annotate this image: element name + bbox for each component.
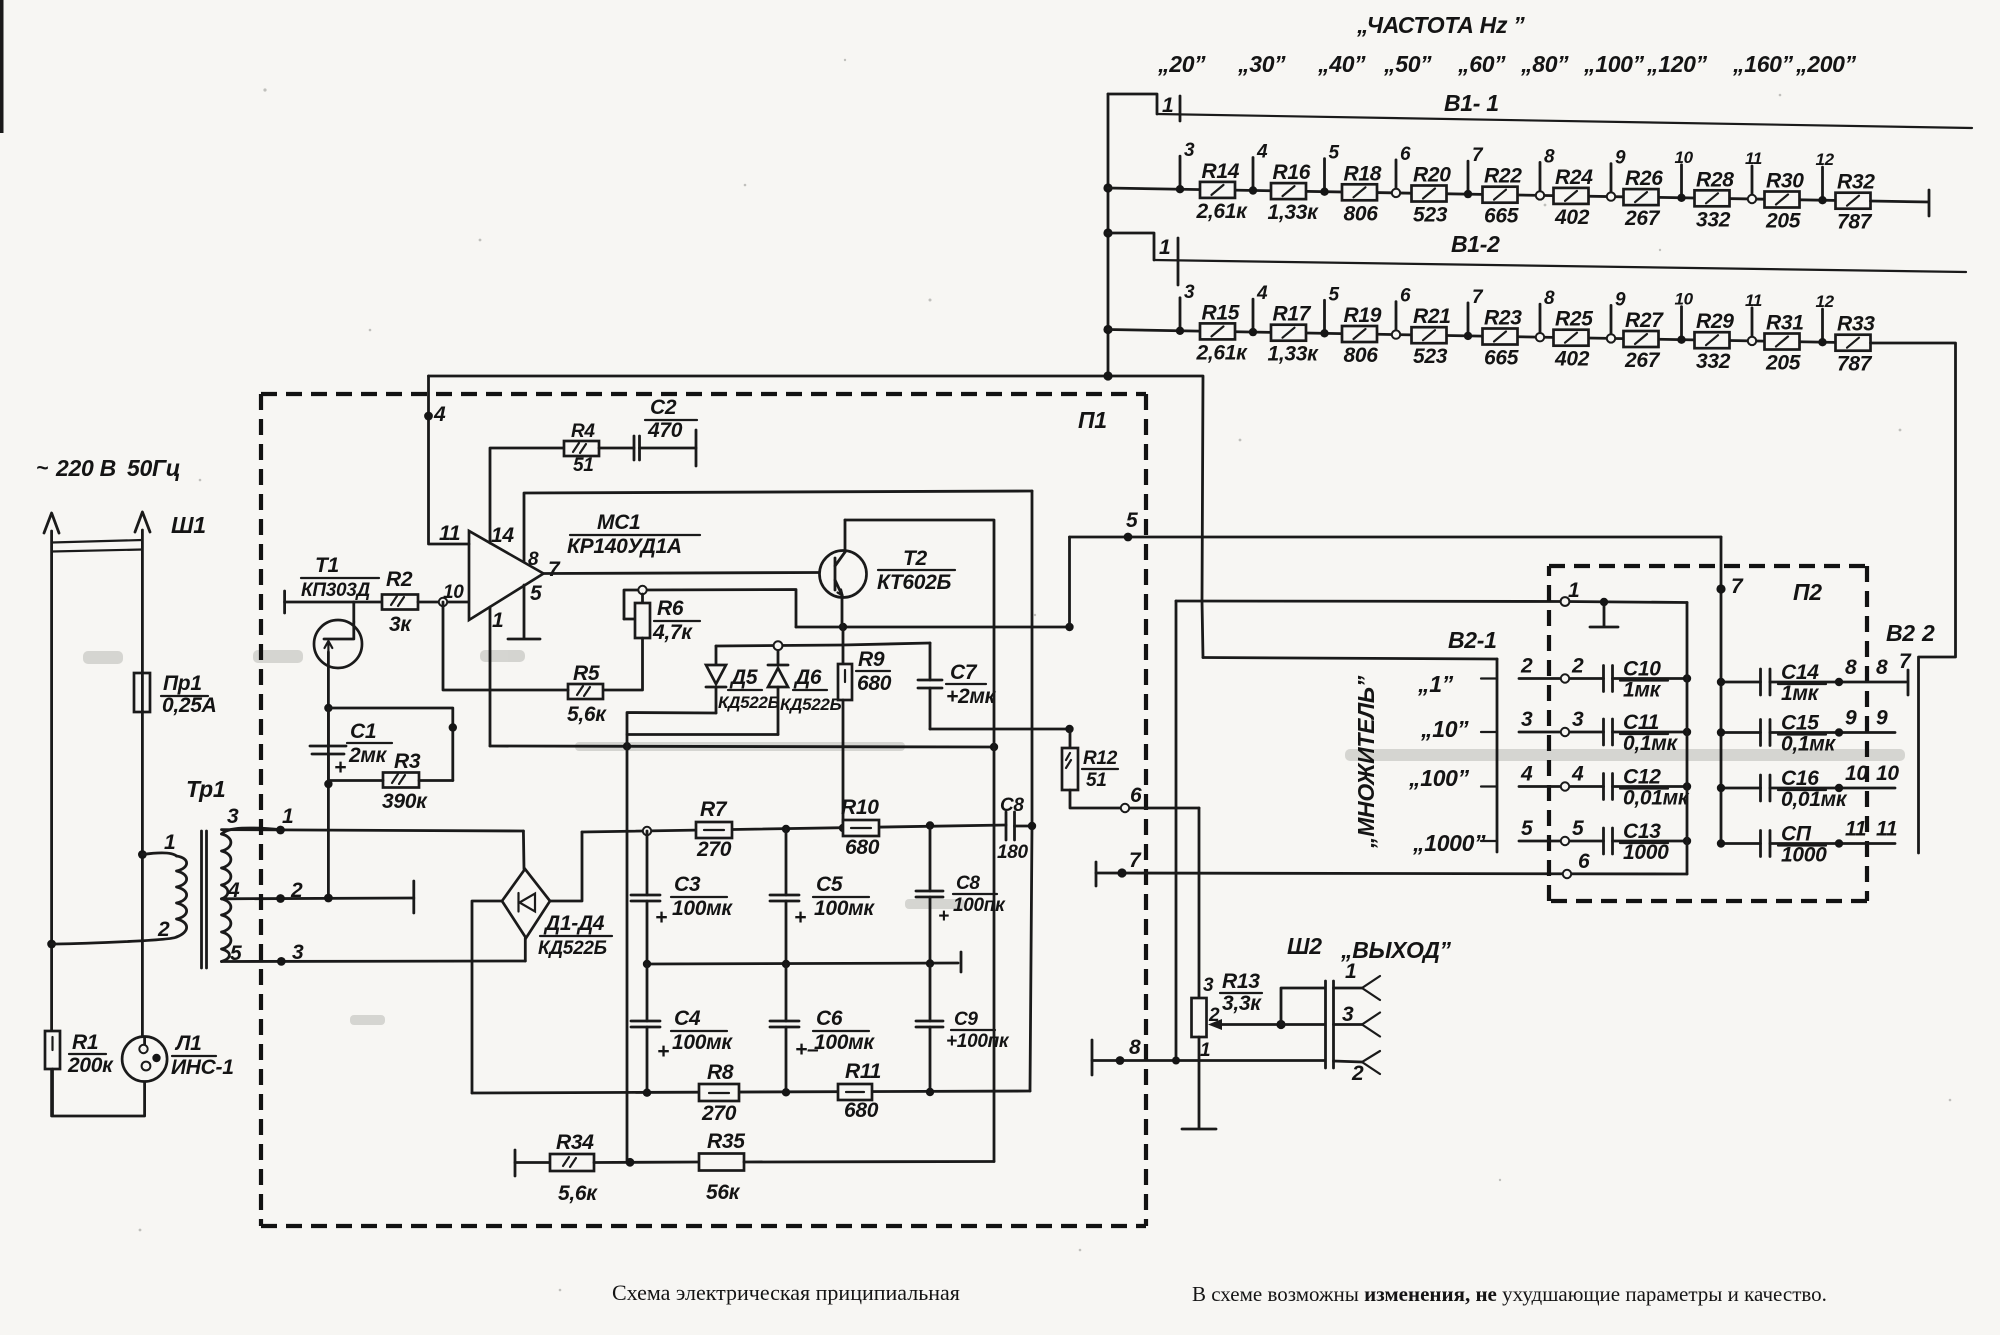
svg-text:3: 3: [227, 805, 239, 828]
svg-text:56к: 56к: [706, 1181, 741, 1204]
capacitor С14: [1717, 656, 1906, 705]
resistor R1: [45, 1031, 114, 1077]
transformer Tr1 label: [186, 776, 225, 802]
svg-text:7: 7: [548, 558, 561, 581]
wire R2 to opamp pin10: [418, 598, 469, 606]
label B2-1: [1448, 627, 1497, 653]
svg-text:В2: В2: [1886, 620, 1915, 646]
svg-text:R35: R35: [707, 1130, 745, 1153]
capacitor C9: [916, 964, 1010, 1092]
resistor R31: [1765, 312, 1804, 375]
wire secondary pin5 to node3: [222, 941, 526, 966]
svg-text:3к: 3к: [389, 613, 412, 636]
wire mains L with arrow: [44, 513, 59, 1116]
wire R34 to R35: [594, 1158, 699, 1167]
svg-text:205: 205: [1765, 210, 1801, 233]
svg-text:+: +: [938, 906, 949, 927]
wire B1-2 switch arm: [1154, 260, 1966, 272]
resistor R27: [1624, 309, 1665, 372]
node P2 pin7: [1716, 537, 1744, 844]
wire B1-2 common feed: [1108, 233, 1154, 260]
wire secondary pin3 to node1: [222, 805, 524, 834]
svg-text:402: 402: [1554, 206, 1590, 229]
svg-text:4: 4: [1571, 763, 1584, 786]
node B1-2 pin 9: [1607, 289, 1626, 342]
svg-text:+–: +–: [795, 1038, 819, 1061]
diode D6: [768, 646, 842, 735]
svg-text:С12: С12: [1623, 766, 1661, 789]
svg-text:„ЧАСТОТА Hz ”: „ЧАСТОТА Hz ”: [1356, 12, 1525, 38]
node B1-2 pin 8: [1536, 288, 1555, 341]
resistor R34: [515, 1131, 598, 1205]
svg-text:4: 4: [1520, 763, 1533, 786]
svg-text:7: 7: [1472, 287, 1484, 308]
svg-text:4,7к: 4,7к: [652, 621, 693, 644]
svg-text:R32: R32: [1837, 171, 1875, 194]
wire B1-1 switch arm: [1157, 114, 1972, 128]
svg-text:523: 523: [1413, 345, 1448, 368]
svg-text:С6: С6: [816, 1007, 843, 1030]
wire B1-1 common feed: [1108, 94, 1157, 114]
label ~220V 50Hz: [36, 455, 180, 481]
svg-text:11: 11: [1745, 149, 1762, 168]
node C1 top: [324, 704, 332, 712]
svg-text:8: 8: [1876, 656, 1888, 679]
wire opamp out pin7 to T2 base: [544, 573, 821, 574]
resistor R32: [1836, 171, 1876, 234]
svg-text:1мк: 1мк: [1623, 679, 1662, 702]
label CHASTOTA Hz: [1356, 12, 1525, 38]
node C4 bottom: [643, 1089, 651, 1097]
svg-text:9: 9: [1615, 148, 1626, 169]
svg-text:В1- 1: В1- 1: [1444, 90, 1499, 116]
svg-text:9: 9: [1845, 707, 1857, 730]
capacitor C5: [770, 829, 875, 964]
svg-text:R26: R26: [1625, 167, 1663, 190]
svg-text:R18: R18: [1344, 162, 1382, 185]
capacitor C8b: [916, 826, 1006, 965]
svg-text:С15: С15: [1781, 712, 1819, 735]
svg-text:11: 11: [1876, 818, 1897, 841]
node B1-1 pin 9: [1607, 148, 1626, 201]
svg-text:+2мк: +2мк: [946, 685, 997, 708]
wire B1 feed down left: [1108, 376, 1203, 601]
svg-text:~: ~: [36, 457, 48, 480]
wire R12 bottom to node6: [1070, 784, 1199, 812]
resistor R6 vertical: [635, 597, 700, 644]
svg-text:100мк: 100мк: [814, 897, 875, 920]
wire node8: [1092, 1036, 1325, 1065]
svg-text:220 В: 220 В: [55, 455, 116, 481]
svg-text:3: 3: [1203, 975, 1214, 996]
node B1-1 pin 1: [1162, 94, 1180, 121]
svg-text:Л1: Л1: [174, 1032, 202, 1055]
svg-text:787: 787: [1837, 211, 1873, 234]
wire B1-2 resistor row: [1108, 330, 1869, 344]
resistor R9 vertical: [838, 627, 892, 700]
wire R33 output to B2 bus: [1871, 343, 1956, 853]
node B1-1 pin 4: [1249, 142, 1268, 195]
node P2 pin6: [1563, 850, 1590, 878]
svg-text:5,6к: 5,6к: [558, 1182, 598, 1205]
svg-text:50Гц: 50Гц: [127, 455, 180, 481]
label frequency scale: [1157, 51, 1857, 77]
svg-text:2,61к: 2,61к: [1196, 200, 1249, 223]
wire T1 source down: [324, 667, 333, 902]
wire R1 bottom: [53, 1069, 145, 1116]
wire R6 bottom to R5: [603, 638, 643, 690]
svg-text:С4: С4: [674, 1007, 701, 1030]
svg-text:В схеме возможны изменения, не: В схеме возможны изменения, не ухудшающи…: [1192, 1282, 1827, 1306]
svg-text:+: +: [334, 756, 346, 779]
resistor R20: [1412, 164, 1452, 227]
svg-text:1,33к: 1,33к: [1268, 343, 1320, 366]
svg-text:4: 4: [1256, 142, 1268, 163]
svg-text:+: +: [655, 906, 667, 929]
svg-text:Ш1: Ш1: [171, 512, 206, 538]
wire pin14 to R4: [490, 448, 564, 543]
svg-text:8: 8: [1544, 288, 1555, 309]
svg-text:3: 3: [1184, 282, 1195, 303]
svg-text:СП: СП: [1781, 823, 1812, 846]
capacitor С10: [1519, 655, 1691, 702]
svg-text:КД522Б: КД522Б: [718, 693, 780, 712]
svg-text:9: 9: [1876, 707, 1888, 730]
wire node5 horizontal: [1070, 509, 1722, 541]
resistor R13 potentiometer: [1192, 970, 1263, 1061]
node B1-2 pin 11: [1745, 291, 1762, 345]
wire R13 wiper: [1208, 1019, 1286, 1030]
svg-text:„МНОЖИТЕЛЬ”: „МНОЖИТЕЛЬ”: [1353, 675, 1379, 849]
node B1-2 pin 10: [1675, 290, 1694, 344]
svg-text:3: 3: [1521, 708, 1533, 731]
wire secondary pin4 to node2: [222, 879, 414, 903]
svg-text:КТ602Б: КТ602Б: [877, 571, 952, 594]
capacitor С15: [1717, 707, 1895, 756]
svg-text:6: 6: [1130, 784, 1142, 807]
svg-text:„200”: „200”: [1795, 51, 1857, 77]
svg-text:ИНС-1: ИНС-1: [171, 1056, 234, 1079]
svg-text:12: 12: [1816, 292, 1835, 311]
wire T1 gate to R2: [285, 602, 382, 622]
svg-text:С8: С8: [1000, 795, 1024, 816]
svg-text:14: 14: [491, 524, 514, 547]
svg-text:5: 5: [1521, 817, 1533, 840]
wire mains N with arrow: [135, 512, 150, 672]
node B1-1 pin 11: [1745, 149, 1762, 203]
resistor R25: [1554, 308, 1594, 371]
svg-text:С2: С2: [650, 396, 677, 419]
svg-text:Д6: Д6: [793, 666, 822, 689]
svg-text:6: 6: [1400, 144, 1411, 165]
diode bridge D1-D4: [502, 869, 612, 959]
svg-text:1: 1: [1200, 1040, 1210, 1061]
wire emitter rail y627: [796, 623, 1074, 631]
svg-text:„10”: „10”: [1420, 716, 1469, 742]
wire node6 down to R13: [1198, 808, 1201, 998]
resistor R21: [1412, 305, 1451, 368]
node B1-1 pin 8: [1536, 146, 1555, 199]
svg-text:+: +: [794, 906, 806, 929]
svg-text:„160”: „160”: [1732, 51, 1794, 77]
node B1-2 pin 4: [1249, 283, 1268, 336]
node B1-1 pin 12: [1816, 150, 1835, 204]
terminal bar node2: [412, 881, 415, 913]
resistor R8: [699, 1061, 739, 1125]
svg-text:0,01мк: 0,01мк: [1623, 787, 1690, 810]
svg-text:С11: С11: [1623, 711, 1659, 734]
label B2 2: [1886, 620, 1935, 646]
svg-text:5,6к: 5,6к: [567, 703, 607, 726]
svg-text:0,1мк: 0,1мк: [1623, 732, 1679, 755]
svg-text:1,33к: 1,33к: [1268, 201, 1320, 224]
connector Sh1 boundary lines: [52, 540, 143, 552]
terminal bar B2-2 wiper: [1899, 650, 1912, 695]
svg-text:С16: С16: [1781, 767, 1819, 790]
node C6 bottom: [782, 1088, 790, 1096]
svg-text:7: 7: [1472, 145, 1484, 166]
op-amp labels: [439, 522, 561, 632]
ground B2-1 node1: [1590, 598, 1618, 627]
connector Sh2 pin2: [1334, 1051, 1381, 1085]
svg-text:2: 2: [157, 918, 170, 941]
resistor R29: [1695, 310, 1735, 373]
node C3 column top: [643, 827, 651, 835]
svg-text:„ВЫХОД”: „ВЫХОД”: [1340, 937, 1452, 963]
wire pin8 to comp line: [524, 491, 1032, 562]
node B1-1 pin 3: [1176, 140, 1195, 193]
wire R3 leads: [328, 779, 452, 782]
transformer primary winding: [52, 831, 187, 944]
svg-text:R27: R27: [1625, 309, 1664, 332]
resistor R16: [1268, 161, 1320, 224]
svg-text:7: 7: [1129, 849, 1142, 872]
svg-text:1: 1: [1159, 236, 1170, 259]
svg-text:10: 10: [1876, 762, 1899, 785]
resistor R33: [1836, 313, 1876, 376]
wire C7 bottom to emitter vert: [930, 725, 1074, 733]
transistor T1 gate terminal bar: [283, 591, 286, 613]
svg-text:665: 665: [1484, 205, 1519, 228]
svg-text:R23: R23: [1484, 307, 1522, 330]
resistor R19: [1342, 304, 1382, 367]
svg-text:„100”: „100”: [1408, 765, 1470, 791]
svg-text:6: 6: [1578, 850, 1590, 873]
svg-text:R8: R8: [707, 1061, 734, 1084]
svg-text:R29: R29: [1696, 310, 1734, 333]
svg-text:„120”: „120”: [1646, 51, 1708, 77]
svg-text:470: 470: [647, 419, 683, 442]
capacitor С16: [1717, 762, 1900, 811]
transistor T1 body: [314, 620, 362, 668]
svg-text:2: 2: [1571, 655, 1584, 678]
svg-text:R11: R11: [845, 1060, 881, 1083]
svg-text:„60”: „60”: [1457, 51, 1506, 77]
capacitor C2: [599, 396, 697, 466]
terminal bar node8: [1091, 1040, 1094, 1075]
terminal bar B1-1 output: [1871, 190, 1930, 216]
svg-text:100мк: 100мк: [814, 1031, 875, 1054]
capacitor C3: [631, 831, 733, 964]
svg-text:R33: R33: [1837, 313, 1875, 336]
transistor T2: [820, 520, 867, 627]
svg-text:100мк: 100мк: [672, 897, 733, 920]
svg-text:7: 7: [1731, 575, 1744, 598]
svg-text:11: 11: [1845, 818, 1866, 841]
svg-text:5: 5: [1329, 143, 1340, 164]
node B1-2 pin 6: [1392, 286, 1411, 339]
svg-text:1: 1: [1345, 960, 1356, 983]
transformer secondary winding 4-5: [222, 879, 243, 965]
neon lamp L1: [122, 1032, 234, 1082]
svg-text:R13: R13: [1222, 970, 1260, 993]
svg-text:КД522Б: КД522Б: [780, 695, 842, 714]
svg-text:10: 10: [1675, 148, 1694, 167]
svg-text:Пр1: Пр1: [163, 672, 202, 695]
wire junction drop to node8: [1172, 601, 1180, 1065]
wire R35 to T2 net: [744, 1160, 994, 1163]
resistor R22: [1483, 165, 1523, 228]
svg-text:2: 2: [1921, 620, 1935, 646]
svg-text:3: 3: [1342, 1003, 1354, 1026]
node B1-1 pin 6: [1392, 144, 1411, 197]
svg-text:1: 1: [164, 831, 175, 854]
resistor R35: [699, 1130, 745, 1204]
svg-text:10: 10: [443, 582, 464, 603]
svg-text:С5: С5: [816, 873, 843, 896]
resistor R5: [567, 662, 607, 726]
svg-text:Схема электрическая приципиа: Схема электрическая приципиальная: [612, 1280, 960, 1305]
svg-text:+: +: [657, 1040, 669, 1063]
capacitor C6: [770, 964, 875, 1092]
connector Sh2 pin3: [1334, 1003, 1381, 1037]
svg-text:267: 267: [1624, 207, 1661, 230]
svg-text:1000: 1000: [1781, 844, 1827, 867]
label B2-1 positions: [1408, 671, 1486, 856]
wire node4 vertical and pin11: [424, 376, 469, 544]
svg-text:100мк: 100мк: [672, 1031, 733, 1054]
svg-text:R30: R30: [1766, 170, 1804, 193]
wire D6 bottom jog: [627, 733, 778, 736]
svg-text:R34: R34: [556, 1131, 594, 1154]
scan smudges: [83, 650, 1905, 1025]
svg-text:R17: R17: [1273, 303, 1312, 326]
hook wire R6 top: [624, 586, 796, 627]
wire B1 left bus: [1103, 94, 1112, 381]
svg-text:R6: R6: [657, 597, 684, 620]
svg-text:680: 680: [844, 1099, 879, 1122]
svg-text:270: 270: [696, 838, 732, 861]
svg-text:R31: R31: [1766, 312, 1804, 335]
resistor R14: [1196, 160, 1249, 223]
svg-text:МС1: МС1: [597, 511, 640, 534]
wire R5 left to pin10 node: [443, 602, 568, 690]
svg-text:12: 12: [1816, 150, 1835, 169]
svg-text:100пк: 100пк: [953, 895, 1006, 916]
svg-text:806: 806: [1344, 344, 1379, 367]
svg-text:4: 4: [433, 403, 446, 426]
svg-text:3: 3: [1572, 708, 1584, 731]
svg-text:КП303Д: КП303Д: [301, 580, 371, 601]
node B1-2 pin 12: [1816, 292, 1835, 346]
label Sh2 VYHOD: [1287, 933, 1452, 963]
node C8b column top: [926, 821, 934, 829]
svg-text:8: 8: [1129, 1036, 1141, 1059]
svg-text:С14: С14: [1781, 661, 1819, 684]
svg-text:R22: R22: [1484, 165, 1522, 188]
svg-text:665: 665: [1484, 347, 1519, 370]
svg-text:3: 3: [1184, 140, 1195, 161]
svg-text:R16: R16: [1273, 161, 1311, 184]
svg-text:8: 8: [528, 549, 539, 570]
svg-text:5: 5: [1126, 509, 1138, 532]
wire emitter to node5 riser: [1068, 537, 1071, 627]
op-amp U1 triangle: [469, 531, 544, 620]
node B1-1 pin 10: [1675, 148, 1694, 202]
svg-text:1мк: 1мк: [1781, 682, 1820, 705]
mid rail: [643, 952, 961, 972]
svg-text:R7: R7: [700, 798, 728, 821]
svg-text:„1”: „1”: [1417, 671, 1454, 697]
svg-text:787: 787: [1837, 353, 1873, 376]
dashed box P1: [261, 394, 1146, 1226]
svg-text:1: 1: [1568, 579, 1579, 602]
node loop tap: [449, 723, 457, 731]
svg-text:R28: R28: [1696, 168, 1734, 191]
svg-text:„30”: „30”: [1237, 51, 1286, 77]
svg-text:402: 402: [1554, 348, 1590, 371]
svg-text:390к: 390к: [382, 790, 428, 813]
resistor R7: [696, 798, 732, 861]
svg-text:С9: С9: [954, 1009, 978, 1030]
caption note: [1192, 1282, 1827, 1306]
svg-text:4: 4: [1256, 283, 1268, 304]
resistor R12: [1062, 729, 1118, 791]
wire D5 bottom jog: [627, 713, 716, 1163]
svg-text:267: 267: [1624, 349, 1661, 372]
svg-text:5: 5: [530, 582, 542, 605]
wire bridge bottom to node3 wire: [524, 938, 527, 961]
label MC1 KR140UD1A: [567, 511, 700, 558]
svg-text:180: 180: [997, 842, 1029, 863]
capacitor С13: [1519, 817, 1691, 864]
svg-text:В1-2: В1-2: [1451, 231, 1500, 257]
svg-text:П1: П1: [1078, 407, 1107, 433]
svg-text:1: 1: [492, 609, 503, 632]
svg-text:2: 2: [1351, 1062, 1364, 1085]
resistor R28: [1695, 168, 1735, 231]
wire C1 loop top: [328, 708, 452, 781]
capacitor C7: [918, 643, 997, 729]
svg-text:Т1: Т1: [315, 554, 339, 577]
wire wiper to pin3: [1281, 1023, 1325, 1026]
capacitor C4: [631, 964, 733, 1092]
svg-text:11: 11: [1745, 291, 1762, 310]
labels T2 KT602B: [877, 547, 955, 594]
svg-text:„50”: „50”: [1383, 51, 1432, 77]
svg-text:51: 51: [1086, 770, 1107, 791]
wire bridge right elbow: [549, 832, 582, 901]
transformer secondary winding 3-4: [222, 805, 281, 899]
wire junction down to wiper line: [1202, 601, 1203, 658]
svg-text:9: 9: [1615, 289, 1626, 310]
svg-text:3,3к: 3,3к: [1222, 992, 1262, 1015]
node primary pin2 on L wire: [47, 940, 56, 949]
wire D5 D6 top to C7: [843, 643, 930, 645]
fuse Pr1: [134, 672, 217, 717]
resistor R2: [382, 568, 418, 636]
svg-text:КР140УД1А: КР140УД1А: [567, 535, 682, 558]
